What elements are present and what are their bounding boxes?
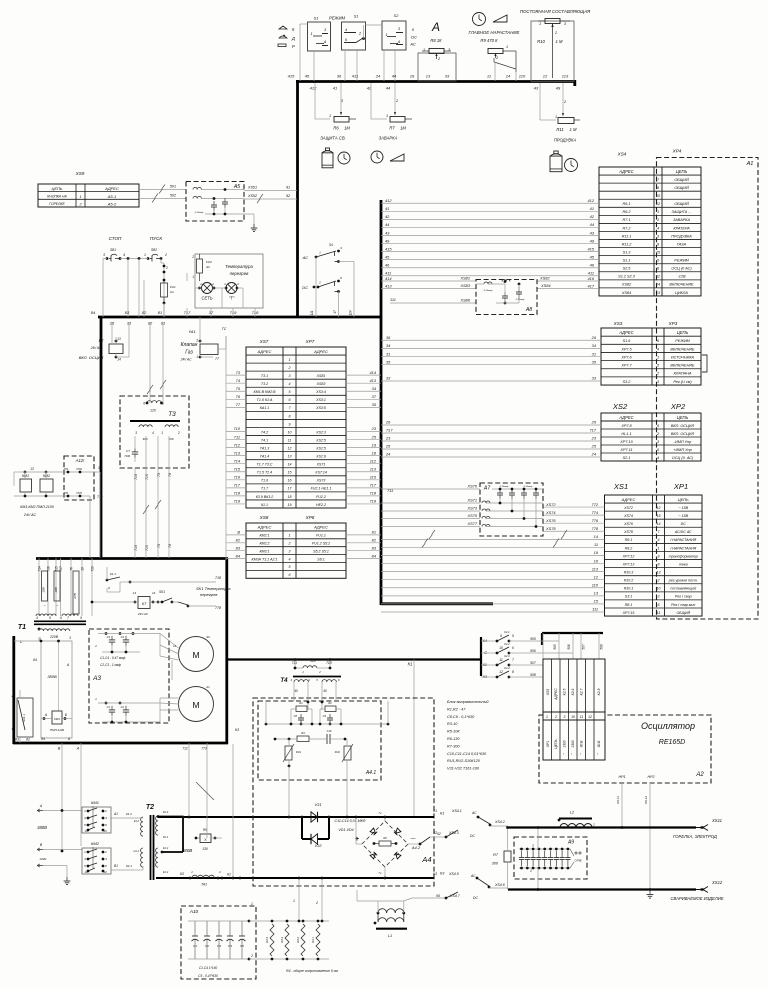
- svg-text:3: 3: [103, 253, 105, 257]
- svg-text:XP7.10: XP7.10: [619, 440, 633, 444]
- svg-text:501: 501: [170, 185, 176, 189]
- svg-text:Д: Д: [291, 36, 295, 41]
- svg-text:XS75: XS75: [466, 513, 477, 518]
- svg-text:КМ3:1: КМ3:1: [259, 549, 269, 553]
- svg-text:84: 84: [91, 310, 96, 315]
- svg-text:А4: А4: [421, 855, 431, 864]
- svg-text:ЦЕПЬ: ЦЕПЬ: [676, 169, 688, 174]
- svg-text:113: 113: [592, 566, 599, 571]
- T1 box right edge: [225, 558, 228, 744]
- svg-text:1: 1: [310, 32, 312, 36]
- svg-text:FU1.1: FU1.1: [316, 534, 326, 538]
- svg-text:АДРЕС: АДРЕС: [313, 525, 328, 530]
- svg-text:10: 10: [571, 715, 575, 719]
- svg-text:XP7.8: XP7.8: [620, 424, 632, 428]
- svg-text:110: 110: [519, 74, 526, 79]
- svg-text:0,15мкф: 0,15мкф: [524, 485, 533, 488]
- svg-text:XS82: XS82: [539, 276, 550, 281]
- svg-text:415: 415: [288, 74, 295, 79]
- svg-text:Rб: Rб: [383, 836, 387, 840]
- svg-text:415: 415: [385, 246, 392, 251]
- svg-text:41: 41: [385, 206, 389, 211]
- svg-text:С5: С5: [240, 944, 244, 948]
- svg-text:26: 26: [591, 420, 597, 425]
- svg-text:С11-С14 0,01 МКФ: С11-С14 0,01 МКФ: [335, 819, 366, 823]
- svg-text:2: 2: [236, 282, 239, 286]
- svg-text:S1.3: S1.3: [623, 250, 632, 254]
- varistor RU1: [285, 746, 292, 760]
- svg-text:С2,С3 - 1 мкф: С2,С3 - 1 мкф: [100, 663, 121, 667]
- module boundary left vertical lower: [100, 317, 103, 559]
- svg-text:R1: R1: [299, 701, 303, 705]
- svg-text:АДРЕС: АДРЕС: [554, 688, 558, 701]
- svg-text:18В: 18В: [54, 587, 58, 592]
- svg-text:К2.8: К2.8: [597, 689, 601, 696]
- svg-text:14: 14: [657, 522, 661, 526]
- svg-text:Т3: Т3: [168, 411, 176, 418]
- svg-text:XS12: XS12: [711, 880, 723, 885]
- svg-text:РЕЖИМ: РЕЖИМ: [674, 259, 689, 263]
- svg-text:С10,С11-С14 0,01*630: С10,С11-С14 0,01*630: [447, 752, 487, 756]
- SA1 switch: [17, 698, 33, 737]
- svg-text:81: 81: [372, 530, 376, 535]
- svg-text:КЛАПАНА: КЛАПАНА: [674, 372, 692, 376]
- svg-text:24: 24: [375, 74, 381, 79]
- svg-text:С3: С3: [107, 635, 111, 639]
- svg-text:15: 15: [288, 471, 292, 475]
- svg-text:FU1.2 S5:2: FU1.2 S5:2: [312, 542, 330, 546]
- svg-text:112: 112: [370, 458, 377, 463]
- svg-text:XS.12: XS.12: [644, 796, 648, 806]
- svg-text:15: 15: [657, 514, 661, 518]
- svg-text:R7-300: R7-300: [447, 744, 460, 748]
- svg-text:А8: А8: [525, 307, 532, 313]
- svg-text:1: 1: [386, 114, 388, 118]
- svg-text:1: 1: [555, 115, 557, 119]
- svg-text:XS84: XS84: [540, 283, 551, 288]
- svg-text:73: 73: [157, 544, 161, 548]
- svg-text:S4: S4: [329, 243, 333, 247]
- main DC bus upper: [158, 816, 434, 818]
- svg-text:XS7:14: XS7:14: [314, 471, 327, 475]
- ground symbol bottom left: [66, 877, 68, 881]
- svg-text:ПУСК: ПУСК: [150, 236, 163, 241]
- svg-text:3: 3: [289, 549, 291, 553]
- dashed box A4.1: [258, 701, 381, 780]
- svg-text:23: 23: [591, 436, 597, 441]
- svg-text:717: 717: [370, 483, 377, 488]
- svg-text:2: 2: [79, 203, 82, 207]
- svg-text:27В: 27В: [73, 593, 77, 599]
- svg-text:С9: С9: [323, 714, 327, 718]
- resistor R5: [196, 837, 200, 839]
- svg-text:ТА1: ТА1: [201, 883, 207, 887]
- svg-text:К3.9 ВК1:2: К3.9 ВК1:2: [256, 495, 274, 499]
- svg-text:S2.1: S2.1: [623, 456, 631, 460]
- svg-text:К2.1: К2.1: [504, 630, 510, 634]
- svg-text:11: 11: [499, 658, 503, 662]
- svg-text:ОБЩИЙ: ОБЩИЙ: [674, 186, 689, 190]
- svg-text:XP7:15: XP7:15: [622, 611, 635, 615]
- svg-text:КРАТЕРА: КРАТЕРА: [673, 226, 690, 230]
- svg-text:14: 14: [152, 591, 156, 595]
- wires R7 zone: [370, 83, 372, 119]
- T1 winding sections: [42, 571, 48, 601]
- svg-text:FU2.1 НЕ1.1: FU2.1 НЕ1.1: [311, 487, 332, 491]
- T2 secondary windings: [156, 816, 158, 835]
- svg-text:4: 4: [289, 382, 291, 386]
- svg-text:1 М: 1 М: [556, 39, 563, 44]
- svg-text:А2: А2: [695, 772, 704, 778]
- svg-text:XS74: XS74: [623, 514, 633, 518]
- T1 box left edge: [12, 636, 15, 744]
- svg-text:составляющей: составляющей: [670, 587, 696, 591]
- output bus 1 gorelka: [508, 826, 696, 828]
- svg-text:710: 710: [234, 426, 241, 431]
- bus K switch vertical: [480, 637, 482, 676]
- T4 down wires into A4.1: [293, 682, 295, 701]
- svg-text:А1: А1: [113, 812, 118, 816]
- svg-text:ВКЛ. ОСЦИЛ: ВКЛ. ОСЦИЛ: [671, 424, 695, 428]
- svg-text:ИСТОЧНИКА: ИСТОЧНИКА: [671, 355, 695, 359]
- svg-text:А1: А1: [746, 161, 754, 167]
- svg-text:Т1: Т1: [18, 624, 26, 631]
- svg-text:ЦЕПЬ: ЦЕПЬ: [677, 330, 689, 335]
- resistor R7 potentiometer: [390, 117, 405, 123]
- indicator box SET / T: [195, 254, 263, 308]
- svg-text:Т3.2: Т3.2: [261, 382, 268, 386]
- svg-text:С4: С4: [121, 635, 125, 639]
- svg-text:С10: С10: [327, 729, 332, 733]
- svg-text:415: 415: [588, 246, 595, 251]
- svg-text:10: 10: [288, 430, 292, 434]
- svg-text:31: 31: [386, 351, 390, 356]
- svg-text:25: 25: [385, 444, 391, 449]
- fuse FU3: [197, 259, 203, 273]
- svg-text:2: 2: [288, 366, 291, 370]
- svg-text:R7.1: R7.1: [622, 218, 630, 222]
- svg-text:СТОП: СТОП: [109, 236, 122, 241]
- svg-text:XS3:1: XS3:1: [315, 398, 326, 402]
- module boundary left vertical: [296, 80, 299, 318]
- svg-text:505: 505: [530, 637, 536, 641]
- bridge rectifier diamond: [362, 821, 408, 867]
- svg-text:AC: AC: [409, 42, 416, 47]
- right rail to XS7: [225, 336, 227, 560]
- svg-text:416: 416: [588, 276, 595, 281]
- svg-text:2: 2: [94, 644, 97, 648]
- svg-text:К2.1: К2.1: [126, 864, 132, 868]
- svg-text:92: 92: [286, 194, 290, 198]
- svg-text:R9.2: R9.2: [625, 546, 633, 550]
- svg-text:2: 2: [165, 266, 168, 270]
- relay KM1 aux: [20, 479, 32, 492]
- svg-text:120: 120: [310, 659, 316, 663]
- svg-text:ЦЕПЬ: ЦЕПЬ: [677, 415, 689, 420]
- svg-text:V31-V32 Т161-160: V31-V32 Т161-160: [447, 767, 480, 771]
- svg-text:Т2: Т2: [146, 804, 154, 811]
- wires module to XS1: [543, 506, 605, 508]
- diagonal wire mark: [196, 782, 214, 800]
- svg-text:502: 502: [170, 194, 176, 198]
- svg-text:XS2:5: XS2:5: [315, 438, 326, 442]
- svg-text:0,15мкф: 0,15мкф: [484, 289, 493, 292]
- svg-text:9: 9: [500, 634, 502, 638]
- motor M1: [179, 637, 214, 672]
- svg-text:А3: А3: [92, 675, 101, 682]
- svg-text:ТА1.3: ТА1.3: [260, 446, 269, 450]
- svg-text:А5: А5: [233, 184, 240, 190]
- svg-text:111: 111: [390, 297, 396, 302]
- svg-text:А5-2: А5-2: [107, 202, 117, 207]
- svg-text:КМ2:1: КМ2:1: [259, 534, 269, 538]
- svg-text:12: 12: [657, 506, 661, 510]
- svg-text:XS70: XS70: [466, 484, 477, 489]
- clock icon 2: [371, 151, 383, 163]
- T1 box top edge: [36, 557, 228, 560]
- T1 vertical wires to bottom: [38, 637, 40, 641]
- svg-text:XP3: XP3: [668, 321, 678, 326]
- svg-text:714: 714: [234, 458, 241, 463]
- svg-text:ЗАЩИТА ...: ЗАЩИТА ...: [671, 210, 691, 214]
- svg-text:24V AC: 24V AC: [90, 346, 103, 350]
- wires XS9 to A5: [139, 189, 186, 191]
- svg-text:М: М: [192, 650, 199, 660]
- svg-text:776: 776: [592, 518, 599, 523]
- svg-text:13: 13: [657, 571, 661, 575]
- svg-text:DC: DC: [681, 522, 687, 526]
- svg-text:GND: GND: [40, 857, 48, 861]
- svg-text:тока: тока: [679, 562, 688, 566]
- wire K1 down to A4: [413, 660, 415, 818]
- svg-text:ЦЕПЬ: ЦЕПЬ: [678, 497, 689, 502]
- svg-text:11: 11: [594, 542, 598, 547]
- svg-text:713: 713: [234, 450, 241, 455]
- svg-text:К1.1: К1.1: [261, 503, 268, 507]
- svg-text:717: 717: [234, 483, 241, 488]
- contactor KM3: [52, 711, 62, 724]
- svg-text:2: 2: [10, 694, 13, 698]
- svg-text:К2.2: К2.2: [163, 870, 169, 874]
- svg-text:5: 5: [512, 634, 514, 638]
- svg-text:АДРЕС: АДРЕС: [618, 415, 634, 420]
- svg-text:40: 40: [323, 689, 327, 693]
- svg-text:А: А: [431, 20, 440, 34]
- lamp T: [226, 283, 237, 294]
- svg-text:411: 411: [385, 271, 391, 276]
- svg-text:XS76: XS76: [545, 518, 556, 523]
- svg-text:КА1.1: КА1.1: [260, 406, 270, 410]
- clamp bracket XP3: [702, 355, 707, 372]
- svg-text:1: 1: [423, 48, 425, 52]
- connector table XS9: [38, 184, 139, 207]
- svg-text:506: 506: [530, 649, 536, 653]
- svg-text:8: 8: [658, 562, 660, 566]
- right wire labels XP8: [346, 534, 381, 536]
- svg-text:XS71: XS71: [316, 463, 326, 467]
- resistor R10 box: [531, 21, 574, 82]
- svg-text:К2.2: К2.2: [163, 846, 169, 850]
- svg-text:КМ2: КМ2: [43, 474, 50, 478]
- svg-text:ХР1: ХР1: [546, 741, 550, 749]
- A4.1 rail 2: [275, 738, 297, 740]
- svg-text:715: 715: [234, 466, 241, 471]
- svg-text:Т4.1: Т4.1: [261, 438, 268, 442]
- svg-text:62: 62: [437, 832, 441, 836]
- svg-text:СВАРИВАЕМОЕ ИЗДЕЛИЕ: СВАРИВАЕМОЕ ИЗДЕЛИЕ: [670, 896, 723, 901]
- svg-text:111: 111: [592, 607, 598, 612]
- T1 core: [34, 620, 86, 622]
- svg-text:13: 13: [133, 591, 137, 595]
- dashed box A5: [186, 182, 244, 222]
- svg-text:130: 130: [202, 847, 208, 851]
- snubber R1 C8: [296, 706, 307, 712]
- svg-text:2: 2: [211, 282, 214, 286]
- svg-text:XS84: XS84: [621, 291, 631, 295]
- svg-text:АДРЕС: АДРЕС: [257, 525, 272, 530]
- svg-text:14: 14: [117, 358, 121, 362]
- bridge connections: [384, 817, 386, 821]
- svg-text:ОСЦ (0 АС): ОСЦ (0 АС): [671, 267, 692, 271]
- svg-text:4: 4: [152, 431, 154, 435]
- svg-text:ПРОДУВКА: ПРОДУВКА: [671, 234, 692, 238]
- svg-text:ПОСТОЯННАЯ СОСТАВЛЯЮЩАЯ: ПОСТОЯННАЯ СОСТАВЛЯЮЩАЯ: [520, 9, 590, 14]
- svg-text:XS3:4: XS3:4: [315, 390, 326, 394]
- svg-text:RE165D: RE165D: [659, 739, 685, 746]
- svg-text:40: 40: [294, 689, 298, 693]
- svg-text:АДРЕС: АДРЕС: [257, 349, 272, 354]
- svg-text:1: 1: [657, 210, 659, 214]
- svg-text:11: 11: [580, 715, 584, 719]
- svg-text:R4 - общее сопротивление 5 ом: R4 - общее сопротивление 5 ом: [286, 969, 338, 973]
- svg-text:ХТ04: ХТ04: [75, 468, 82, 471]
- thyristor V32 bypass: [301, 817, 303, 839]
- svg-text:XS4.1: XS4.1: [451, 809, 462, 813]
- wires module to XS2: [381, 424, 601, 426]
- svg-text:R7.2: R7.2: [622, 226, 631, 230]
- svg-text:XS2:3: XS2:3: [315, 430, 326, 434]
- left pin labels XS8: [226, 534, 246, 536]
- svg-text:716: 716: [234, 475, 241, 480]
- wires module to A7: [381, 488, 480, 490]
- svg-text:XS52: XS52: [247, 194, 257, 198]
- svg-text:~ 15В: ~ 15В: [679, 506, 689, 510]
- svg-text:717: 717: [386, 428, 393, 433]
- svg-text:В: В: [58, 747, 61, 751]
- svg-text:5: 5: [289, 565, 291, 569]
- svg-text:508: 508: [530, 673, 536, 677]
- wires A8 row: [381, 280, 476, 282]
- wires T1 down to buses: [188, 743, 190, 817]
- svg-text:~: ~: [378, 871, 382, 877]
- svg-text:719: 719: [91, 566, 95, 572]
- svg-text:411: 411: [588, 271, 594, 276]
- svg-text:26: 26: [385, 420, 391, 425]
- svg-text:КМ2: КМ2: [91, 841, 100, 846]
- svg-text:ГАЗА: ГАЗА: [677, 242, 686, 246]
- T4 secondary coils: [294, 680, 308, 682]
- relay KM2 aux: [40, 479, 53, 492]
- svg-text:719: 719: [326, 661, 332, 665]
- svg-text:~: ~: [378, 811, 382, 817]
- svg-text:"Т": "Т": [229, 296, 235, 301]
- svg-text:S1.2 S2.3: S1.2 S2.3: [618, 275, 636, 279]
- svg-text:Т4.2: Т4.2: [261, 430, 268, 434]
- svg-text:XS83: XS83: [459, 283, 470, 288]
- svg-text:К2.1: К2.1: [163, 835, 169, 839]
- svg-text:6: 6: [289, 573, 291, 577]
- svg-text:ОБЩИЙ: ОБЩИЙ: [674, 202, 689, 206]
- svg-text:НР2: НР2: [648, 775, 655, 779]
- svg-text:220В: 220В: [49, 635, 59, 639]
- svg-text:2: 2: [318, 670, 321, 674]
- wire from bridge minus to L1: [372, 878, 374, 906]
- motor M2: [179, 687, 214, 722]
- svg-text:380В: 380В: [37, 825, 47, 830]
- svg-text:XS5: XS5: [546, 689, 550, 697]
- svg-text:К2.7: К2.7: [580, 689, 584, 696]
- svg-text:К2.3: К2.3: [163, 810, 169, 814]
- svg-text:XS73: XS73: [316, 479, 326, 483]
- svg-text:XP7.5: XP7.5: [620, 347, 632, 351]
- svg-text:С1.С4 1*160: С1.С4 1*160: [199, 966, 217, 970]
- svg-text:23: 23: [371, 426, 377, 431]
- svg-text:1: 1: [196, 355, 198, 359]
- svg-text:ЦИКЛА: ЦИКЛА: [675, 291, 688, 295]
- svg-text:11: 11: [487, 74, 491, 79]
- svg-text:778: 778: [215, 606, 221, 610]
- svg-text:715: 715: [145, 545, 149, 551]
- svg-text:2300: 2300: [563, 740, 567, 748]
- svg-text:R9 470 К: R9 470 К: [480, 38, 498, 43]
- wire x 100 mid: [99, 472, 101, 474]
- svg-text:24: 24: [385, 452, 391, 457]
- svg-text:XS3: XS3: [613, 321, 623, 326]
- svg-text:~ 15В: ~ 15В: [679, 514, 689, 518]
- bus to XS5 connector: [542, 632, 603, 634]
- svg-text:XP7: XP7: [305, 339, 315, 344]
- svg-text:412: 412: [588, 198, 595, 203]
- svg-text:19: 19: [288, 503, 292, 507]
- svg-text:74: 74: [168, 544, 172, 548]
- svg-text:ВКЛ. ОСЦИЛ: ВКЛ. ОСЦИЛ: [79, 355, 104, 360]
- svg-text:R1,R2 - 47: R1,R2 - 47: [447, 707, 466, 711]
- svg-text:К1: К1: [440, 812, 444, 816]
- svg-text:13: 13: [288, 455, 292, 459]
- svg-text:3: 3: [564, 715, 566, 719]
- svg-text:XS74: XS74: [545, 510, 556, 515]
- svg-text:КНОПКА НА: КНОПКА НА: [47, 195, 67, 199]
- svg-text:К2.4: К2.4: [504, 666, 510, 670]
- svg-text:92: 92: [148, 321, 153, 326]
- connector table XS4/XP4: [599, 167, 701, 296]
- svg-text:24V AC: 24V AC: [23, 513, 37, 517]
- svg-text:XS82: XS82: [621, 283, 632, 287]
- svg-text:1: 1: [539, 22, 541, 26]
- svg-text:XP7.7: XP7.7: [620, 364, 632, 368]
- svg-text:16: 16: [410, 74, 415, 79]
- dashed box A8: [476, 280, 537, 315]
- svg-text:17: 17: [333, 310, 337, 314]
- svg-text:Т4: Т4: [280, 677, 288, 684]
- svg-text:66: 66: [436, 894, 440, 898]
- svg-text:2: 2: [288, 542, 291, 546]
- svg-text:76: 76: [70, 567, 74, 571]
- svg-text:XP8: XP8: [305, 515, 315, 520]
- svg-text:1: 1: [546, 715, 548, 719]
- svg-text:XS4.2: XS4.2: [494, 820, 505, 824]
- svg-text:XS78: XS78: [623, 530, 633, 534]
